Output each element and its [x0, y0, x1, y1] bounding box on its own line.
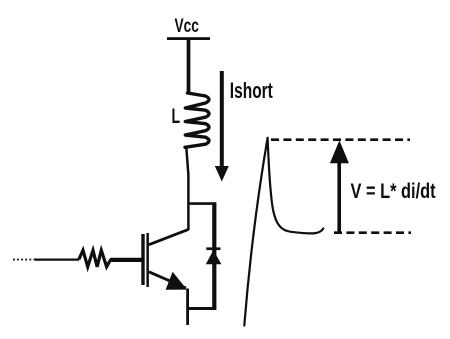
- current arrow Ishort (head): [215, 166, 229, 182]
- current arrow Ishort (shaft): [220, 71, 224, 168]
- waveform spike decay and plateau: [268, 138, 324, 234]
- wire Vcc bar to inductor: [187, 39, 191, 94]
- resistor R1 zigzag: [79, 250, 111, 266]
- diode D1 cathode bar: [206, 247, 220, 250]
- waveform rising edge: [244, 138, 267, 326]
- transistor Q1 body bar (right): [146, 233, 149, 287]
- wire inductor to collector node: [186, 146, 188, 230]
- svg-text:Ishort: Ishort: [230, 80, 274, 104]
- transistor Q1 gate bar (left): [141, 234, 144, 285]
- resistor R1 left lead: [35, 259, 79, 261]
- svg-text:V = L* di/dt: V = L* di/dt: [351, 179, 437, 202]
- inductor L coil: [185, 93, 209, 147]
- voltage arrow head: [330, 140, 349, 163]
- voltage arrow shaft: [337, 160, 341, 232]
- transistor Q1 emitter arrowhead: [166, 272, 187, 290]
- transistor Q1 collector stroke: [149, 229, 189, 244]
- diode D1 triangle: [206, 250, 222, 264]
- wire bottom rail to diode branch: [187, 307, 217, 310]
- dotted input wire: [13, 259, 35, 261]
- wire top rail to diode branch: [188, 202, 217, 205]
- svg-text:L: L: [172, 104, 181, 127]
- diode branch wire (vertical): [212, 202, 216, 308]
- dashed plateau level line: [334, 231, 411, 234]
- wire emitter to bottom node: [186, 289, 189, 326]
- transistor Q1 emitter stroke: [149, 272, 186, 288]
- gate wire (thick segment to gate): [110, 258, 142, 262]
- svg-text:Vcc: Vcc: [175, 15, 199, 37]
- Vcc supply rail bar: [167, 37, 210, 40]
- dashed peak level line: [271, 138, 410, 141]
